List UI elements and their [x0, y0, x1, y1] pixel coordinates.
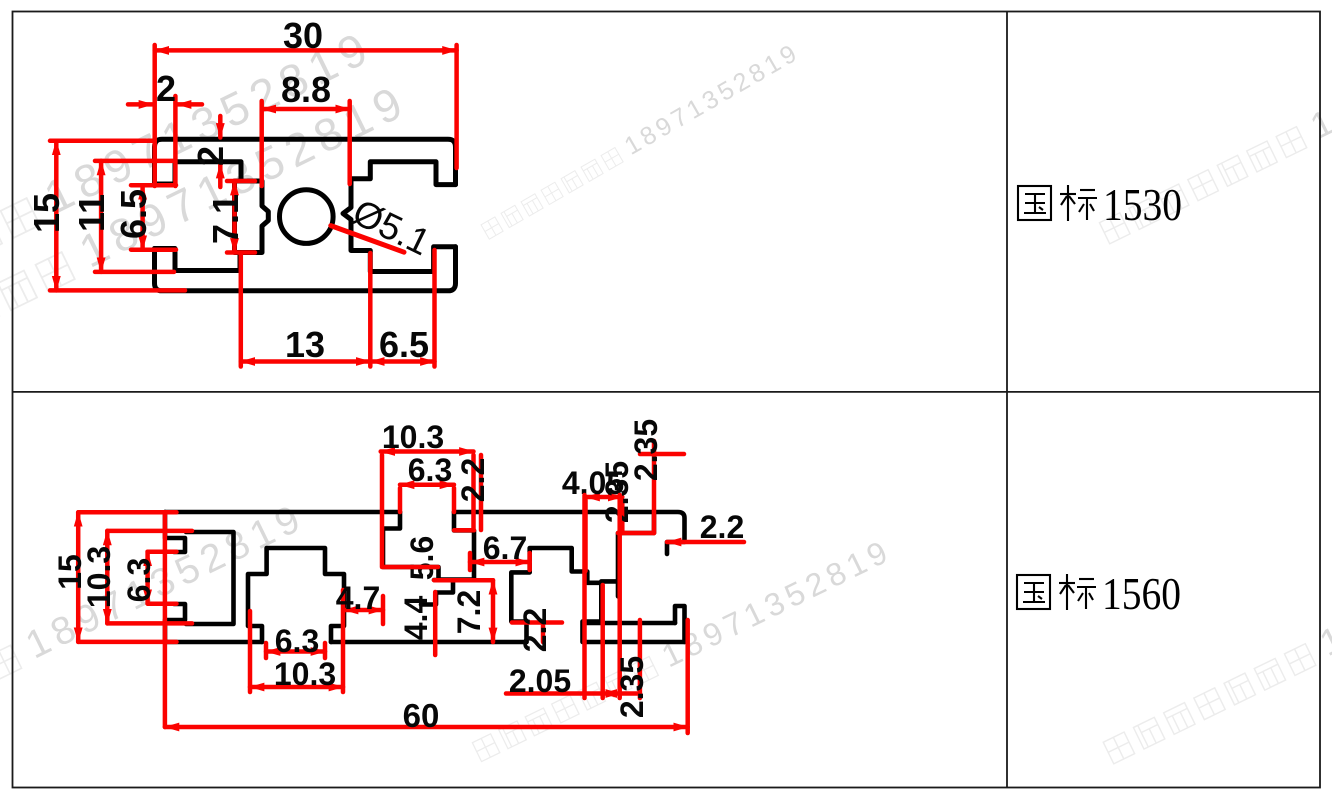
svg-text:2.2: 2.2 [455, 458, 491, 502]
watermark texts [0, 20, 381, 355]
profile 1530 outer contour bottom part [155, 247, 456, 291]
dim 4.4 rotated [433, 592, 438, 655]
dim 2.2 rotated top [479, 455, 484, 530]
profile 1530 outer contour top part [155, 139, 456, 184]
svg-text:1530: 1530 [1103, 179, 1182, 230]
profile 1560 bottom right lip [675, 606, 685, 642]
svg-text:6.5: 6.5 [379, 324, 429, 365]
dim 2 vertical (wall) [218, 116, 223, 138]
svg-text:2.05: 2.05 [509, 663, 571, 699]
profile 1560 top edge right segment with corner [454, 512, 685, 554]
profile 1560 left end steps and mouth lips [165, 512, 185, 552]
svg-text:10.3: 10.3 [274, 656, 336, 692]
svg-text:2: 2 [190, 146, 231, 166]
dim 4.05 [586, 495, 623, 500]
svg-text:4.7: 4.7 [336, 580, 380, 616]
svg-text:11: 11 [71, 194, 112, 232]
dim 6.3 left row2 [145, 552, 150, 604]
dim 6.3 top [400, 482, 454, 487]
svg-text:2: 2 [156, 68, 176, 109]
svg-text:2.35: 2.35 [614, 656, 650, 718]
profile 1560 bottom T-slot (first mushroom) [248, 548, 344, 642]
dim 6.5 left [140, 185, 145, 250]
dim 6.3 bottom mushroom [266, 649, 325, 654]
svg-text:4.4: 4.4 [398, 596, 434, 641]
svg-text:6.7: 6.7 [483, 530, 527, 566]
dim 7.1 central channel [232, 181, 237, 253]
leader line for hole diameter [331, 226, 404, 253]
label diameter 5.1 [346, 191, 436, 263]
profile 1560 top edge left segment [165, 510, 400, 515]
dim 10.3 bottom mushroom [250, 685, 343, 690]
profile 1560 left cavity rectangle [186, 532, 234, 624]
dim 7.2 rotated [491, 580, 496, 642]
svg-text:6.5: 6.5 [113, 189, 154, 239]
profile 1530 left T-slot lower lip and cavity floor [155, 249, 241, 271]
profile 1530 right T-slot contour [343, 162, 456, 272]
svg-text:2.35: 2.35 [599, 461, 635, 523]
dim 2.35 rotated top A [652, 441, 657, 533]
dim 2 top-left [128, 102, 153, 107]
dim 60 bottom [165, 725, 688, 730]
profile 1560 top slot contour [383, 512, 474, 580]
label guobiao 1530 [1018, 185, 1097, 221]
dim 6.7 [470, 560, 530, 565]
svg-text:2.2: 2.2 [517, 608, 553, 652]
dim 2.05 and 2.35 bottom cluster [603, 691, 620, 696]
profile 1530 left T-slot upper lip and cavity ceiling [155, 162, 242, 184]
table horizontal divider [13, 391, 1321, 393]
red overlay ticks row2 [454, 528, 474, 533]
dim 8.8 [262, 107, 350, 112]
dim 11 left [99, 161, 104, 272]
svg-text:15: 15 [26, 193, 67, 233]
label guobiao 1560 [1017, 574, 1096, 610]
dim 30 top [155, 48, 457, 53]
profile 1560 right inner channel [618, 512, 654, 596]
dim 15 left [54, 141, 59, 291]
svg-text:10.3: 10.3 [382, 419, 444, 455]
svg-text:6.3: 6.3 [408, 452, 452, 488]
profile 1530 central screw channel [235, 181, 269, 253]
dim 4.7 [344, 608, 383, 613]
dim 6.5 bottom right [370, 359, 434, 364]
svg-text:10.3: 10.3 [81, 546, 117, 608]
dim 10.3 top [381, 449, 474, 454]
svg-text:6.3: 6.3 [275, 623, 319, 659]
profile 1530 center hole circle [280, 190, 334, 244]
svg-text:1560: 1560 [1102, 568, 1181, 619]
svg-text:13: 13 [285, 324, 325, 365]
svg-text:6.3: 6.3 [121, 558, 157, 602]
profile 1560 middle staircase below top slot [421, 580, 453, 605]
svg-text:60: 60 [403, 697, 440, 734]
profile 1560 center mushroom slot [511, 548, 601, 642]
dim 15 left row2 [76, 512, 81, 642]
svg-text:7.2: 7.2 [451, 590, 487, 634]
profile 1560 right cavity floor [584, 621, 675, 626]
svg-text:7.1: 7.1 [205, 194, 246, 244]
svg-text:8.8: 8.8 [281, 69, 331, 110]
table vertical divider [1006, 12, 1008, 788]
profile 1560 bottom edge segments [165, 640, 262, 645]
svg-text:5.6: 5.6 [404, 536, 440, 580]
dim 13 bottom [241, 359, 370, 364]
svg-text:2.2: 2.2 [700, 509, 744, 545]
dim 10.3 left row2 [105, 531, 110, 624]
dim 2.2 right leader [667, 540, 744, 545]
svg-text:30: 30 [283, 15, 323, 56]
